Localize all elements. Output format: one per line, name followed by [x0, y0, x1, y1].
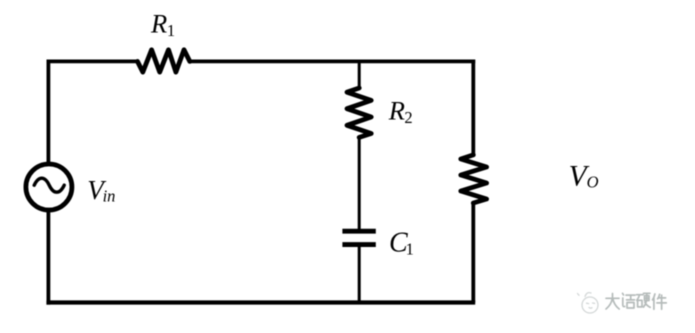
- svg-text:in: in: [103, 186, 116, 205]
- wire bottom: [46, 300, 475, 304]
- 话: [623, 293, 636, 308]
- watermark text 大话硬件 (embossed light gray): [606, 293, 667, 310]
- wire right vertical upper: [471, 60, 475, 156]
- resistor R1: [138, 50, 190, 72]
- wire middle between R2 and C1: [358, 137, 361, 230]
- label Vo: [569, 161, 599, 193]
- svg-text:2: 2: [404, 108, 412, 127]
- svg-text:1: 1: [167, 21, 175, 40]
- wire top-right segment: [190, 60, 475, 64]
- resistor (output branch): [461, 155, 487, 203]
- svg-text:R: R: [388, 96, 405, 126]
- wire left vertical upper: [47, 60, 51, 165]
- label R2: [388, 96, 413, 128]
- 件: [653, 295, 667, 310]
- wire left vertical lower: [47, 209, 51, 304]
- wire top-left segment: [47, 60, 138, 64]
- 话: [623, 294, 636, 309]
- label C1: [389, 228, 414, 259]
- svg-text:1: 1: [406, 240, 414, 259]
- 大: [607, 294, 620, 310]
- 大: [606, 294, 619, 310]
- voltage source V_in circle: [26, 164, 72, 210]
- capacitor C1: [342, 231, 375, 244]
- 硬: [637, 294, 651, 308]
- wire right vertical lower: [471, 203, 475, 303]
- label R1: [150, 9, 175, 41]
- voltage source sine wave: [34, 178, 64, 192]
- svg-text:O: O: [587, 173, 599, 192]
- resistor R2: [347, 88, 371, 137]
- 件: [653, 294, 667, 309]
- watermark logo: [578, 293, 599, 313]
- wire middle vertical upper: [358, 61, 361, 89]
- svg-text:R: R: [150, 9, 167, 39]
- label Vin: [87, 175, 115, 205]
- wire middle lower: [358, 246, 361, 302]
- 硬: [637, 293, 651, 307]
